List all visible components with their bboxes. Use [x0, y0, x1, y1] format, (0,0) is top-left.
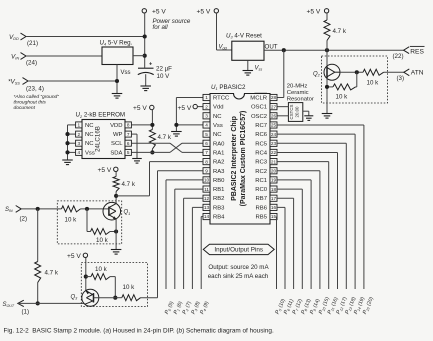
svg-text:Vss: Vss	[213, 123, 223, 129]
junction	[114, 229, 118, 233]
junction	[115, 79, 119, 83]
svg-text:6: 6	[205, 141, 208, 146]
junction	[282, 48, 286, 52]
caption	[4, 328, 274, 335]
wire pin25 to P15	[277, 125, 364, 289]
label 10 k	[336, 94, 349, 101]
svg-text:21: 21	[271, 159, 277, 164]
wire	[81, 208, 109, 210]
svg-text:U2 2-kB EEPROM: U2 2-kB EEPROM	[76, 112, 126, 119]
U1 pin 24 RC6	[255, 131, 277, 138]
svg-text:RA0: RA0	[213, 141, 225, 147]
U1 pin 13 RB3	[203, 204, 225, 211]
svg-text:*Also called “ground”: *Also called “ground”	[14, 94, 60, 100]
wire RES line	[264, 49, 404, 51]
resistor 10k	[91, 274, 110, 280]
svg-text:RB1: RB1	[213, 187, 224, 193]
label 4.7 k	[158, 134, 172, 141]
U1 pin 18 RC0	[255, 186, 277, 193]
eeprom pin 1	[76, 122, 95, 129]
wire pin22 to P12	[277, 152, 338, 289]
svg-text:3: 3	[205, 114, 208, 119]
svg-text:RC5: RC5	[255, 141, 268, 147]
wire RB2 to P2	[184, 198, 203, 289]
wire RA2 route	[116, 162, 203, 196]
svg-text:4.7 k: 4.7 k	[158, 134, 172, 141]
svg-text:NC: NC	[85, 132, 94, 138]
svg-text:for all: for all	[153, 24, 169, 31]
voltage regulator U4	[100, 40, 134, 65]
wire	[326, 50, 328, 66]
wire	[115, 192, 117, 196]
junction	[114, 194, 118, 198]
svg-text:Input/Output Pins: Input/Output Pins	[214, 246, 263, 253]
wire	[151, 149, 153, 152]
svg-text:NC: NC	[85, 141, 94, 147]
svg-text:13: 13	[204, 205, 210, 210]
U1 pin 27 OSC1	[251, 104, 277, 111]
capacitor C1 22uF	[138, 62, 154, 86]
svg-text:2: 2	[205, 104, 208, 109]
U1 pin 17 RB7	[256, 195, 277, 202]
wire pin21 to P11	[277, 162, 329, 289]
wire eeprom NC tie	[68, 125, 76, 160]
wire pin23 to P13	[277, 143, 346, 289]
svg-text:+5 V: +5 V	[133, 105, 147, 112]
label power source	[153, 18, 191, 31]
svg-text:each sink 25 mA each: each sink 25 mA each	[208, 273, 269, 280]
label 10 k	[123, 284, 136, 291]
svg-text:16: 16	[271, 205, 277, 210]
wire RB1 to P1	[175, 189, 203, 289]
wire	[115, 172, 117, 177]
node Vss	[8, 78, 44, 93]
junction	[325, 48, 329, 52]
svg-text:17: 17	[271, 196, 277, 201]
reset supervisor U3	[226, 33, 264, 61]
U1 pin 8 RA2	[203, 158, 224, 165]
resistor 4.7k	[113, 177, 119, 192]
svg-text:RA1: RA1	[213, 150, 224, 156]
junction	[84, 275, 88, 279]
svg-text:WP: WP	[113, 132, 123, 138]
svg-text:19: 19	[271, 178, 277, 183]
svg-text:+5 V: +5 V	[67, 253, 81, 260]
label Q2	[313, 71, 321, 77]
port RES	[393, 46, 425, 59]
wire	[26, 36, 145, 38]
wire pin19 to P9	[277, 180, 311, 289]
junction	[85, 207, 89, 211]
wire	[37, 209, 39, 262]
svg-text:6: 6	[127, 141, 130, 146]
wire SDA	[131, 143, 203, 152]
wire	[28, 80, 117, 82]
label Vdd	[219, 45, 228, 51]
wire	[18, 302, 84, 304]
svg-text:RC1: RC1	[255, 178, 267, 184]
power +5V terminal	[142, 9, 166, 16]
svg-text:RC7: RC7	[255, 123, 267, 129]
svg-text:3: 3	[77, 141, 80, 146]
wire	[356, 72, 358, 87]
label Q3	[71, 295, 79, 301]
ground	[62, 160, 73, 165]
svg-text:10 k: 10 k	[95, 266, 108, 273]
label Vss	[255, 65, 263, 71]
resistor 4.7k	[149, 130, 155, 150]
footnote	[14, 94, 60, 111]
interpreter chip U1 body	[210, 94, 270, 225]
dashed box	[57, 201, 121, 244]
svg-text:Vss: Vss	[121, 70, 131, 76]
wire pin17 to P7	[277, 198, 294, 289]
U1 pin 14 RB4	[203, 213, 225, 220]
svg-text:27: 27	[271, 104, 277, 109]
svg-text:+5 V: +5 V	[178, 105, 192, 112]
eeprom pin 8	[110, 122, 131, 129]
wire pin20 to P10	[277, 171, 320, 289]
transistor Q3	[82, 289, 99, 306]
svg-text:10 k: 10 k	[367, 79, 380, 86]
U1 pin 28 MCLR	[250, 93, 277, 101]
label Q1	[124, 210, 131, 216]
label P15	[362, 296, 375, 315]
wire RB0 to P0	[166, 180, 203, 289]
eeprom U2 label	[76, 112, 126, 119]
wire	[87, 231, 91, 233]
wire	[86, 209, 88, 232]
svg-text:20.00: 20.00	[294, 106, 299, 118]
wire base	[94, 297, 116, 299]
svg-text:12: 12	[204, 196, 210, 201]
wire	[326, 13, 328, 20]
svg-text:RB6: RB6	[256, 205, 268, 211]
svg-text:(2): (2)	[20, 216, 28, 223]
transistor Q2	[324, 64, 340, 80]
wire	[303, 111, 309, 116]
label 10 k	[95, 266, 108, 273]
wire pin16 to P6	[277, 207, 285, 289]
ground	[322, 114, 333, 119]
port Sout	[3, 300, 30, 315]
svg-text:RA2: RA2	[213, 160, 224, 166]
resistor 4.7k	[324, 20, 330, 41]
U1 pin 26 OSC2	[251, 113, 277, 120]
junction	[325, 85, 329, 89]
wire	[247, 60, 249, 70]
svg-text:VDD: VDD	[110, 123, 122, 129]
node Vdd	[9, 33, 38, 47]
svg-text:10: 10	[204, 178, 210, 183]
svg-text:OSC2: OSC2	[251, 114, 267, 120]
ground	[132, 159, 142, 164]
svg-text:11: 11	[204, 187, 209, 192]
eeprom U2 body	[82, 120, 125, 159]
wire	[326, 41, 328, 67]
svg-text:10 k: 10 k	[96, 237, 109, 244]
svg-text:+5 V: +5 V	[197, 9, 211, 16]
resistor 10k	[363, 69, 384, 75]
label P12	[336, 296, 349, 315]
svg-text:+5 V: +5 V	[152, 9, 166, 16]
junction	[174, 123, 178, 127]
svg-text:8: 8	[127, 123, 130, 128]
svg-text:RTCC: RTCC	[213, 96, 230, 102]
label P14	[353, 296, 366, 315]
svg-text:RC2: RC2	[255, 169, 267, 175]
svg-text:RC3: RC3	[255, 160, 268, 166]
svg-text:OUT: OUT	[265, 43, 278, 50]
svg-text:RB5: RB5	[256, 215, 268, 221]
eeprom pin 3	[76, 140, 95, 147]
power +5V terminal	[98, 167, 119, 174]
wire RB3 to P3	[192, 207, 203, 289]
U1 pin 19 RC1	[255, 177, 277, 184]
svg-text:Vdd: Vdd	[213, 105, 223, 111]
svg-text:10 k: 10 k	[336, 94, 349, 101]
U1 pin 9 RA3	[203, 168, 225, 175]
wire	[133, 55, 145, 57]
U1 pin 23 RC5	[255, 140, 277, 147]
U1 pin 11 RB1	[203, 186, 224, 193]
svg-text:ATN: ATN	[411, 69, 424, 76]
svg-text:RC0: RC0	[255, 187, 268, 193]
svg-text:1: 1	[77, 123, 80, 128]
label P11	[327, 296, 340, 315]
label 4.7 k	[333, 28, 347, 35]
wire	[151, 110, 153, 130]
svg-text:+5 V: +5 V	[307, 9, 321, 16]
svg-text:4: 4	[77, 150, 80, 155]
junction	[143, 54, 147, 58]
svg-text:2: 2	[77, 132, 80, 137]
svg-text:(3): (3)	[397, 75, 405, 82]
wire	[384, 71, 404, 73]
resistor 4.7k	[35, 262, 41, 283]
svg-text:throughout this: throughout this	[14, 100, 47, 106]
U1 pin 12 RB2	[203, 195, 224, 202]
svg-text:4: 4	[205, 123, 208, 128]
wire	[277, 115, 288, 117]
label resonator	[287, 84, 314, 103]
svg-text:15: 15	[271, 214, 277, 219]
wire RTCC ground	[176, 98, 203, 132]
svg-text:(22): (22)	[393, 53, 404, 60]
svg-text:(ParaMax Custom PIC16C57): (ParaMax Custom PIC16C57)	[240, 111, 247, 207]
ground	[243, 71, 254, 76]
label P9	[309, 298, 321, 316]
svg-text:Ceramic: Ceramic	[287, 90, 309, 96]
callout Input/Output Pins	[203, 244, 274, 254]
svg-text:(23, 4): (23, 4)	[26, 86, 44, 93]
svg-text:5: 5	[205, 132, 208, 137]
svg-text:7: 7	[205, 150, 208, 155]
junction	[150, 150, 154, 154]
label P2	[182, 300, 193, 315]
svg-text:NC: NC	[213, 114, 222, 120]
svg-text:RC6: RC6	[255, 132, 268, 138]
svg-text:4.7 k: 4.7 k	[45, 269, 59, 276]
eeprom pin 5	[110, 149, 131, 156]
junction	[150, 123, 154, 127]
svg-text:MCLR: MCLR	[250, 96, 267, 102]
svg-text:4.7 k: 4.7 k	[333, 28, 347, 35]
wire pin18 to P8	[277, 189, 302, 289]
svg-text:22 µF: 22 µF	[156, 65, 172, 72]
resistor 10k	[122, 295, 141, 301]
wire	[86, 277, 116, 298]
label 10 k	[96, 237, 109, 244]
svg-text:OSC1: OSC1	[251, 105, 267, 111]
svg-text:24LC16B: 24LC16B	[95, 126, 102, 152]
label P10	[318, 296, 331, 315]
U1 pin 21 RC3	[255, 158, 277, 165]
wire RB4 to P4	[201, 217, 203, 289]
svg-text:25: 25	[271, 123, 277, 128]
wire	[144, 13, 146, 68]
svg-text:26: 26	[271, 114, 277, 119]
junction	[65, 132, 69, 136]
power +5V terminal	[307, 9, 329, 16]
transistor Q1	[103, 202, 121, 220]
svg-text:document: document	[14, 105, 36, 111]
U1 pin 3 NC	[203, 113, 222, 120]
dashed box	[322, 56, 388, 103]
wire WP ground	[131, 134, 137, 158]
svg-text:RB7: RB7	[256, 196, 267, 202]
svg-text:5: 5	[127, 150, 130, 155]
wire SCL	[131, 143, 203, 152]
svg-text:1: 1	[205, 95, 208, 100]
label P3	[191, 300, 202, 315]
wire	[37, 283, 39, 304]
eeprom pin 6	[111, 140, 131, 147]
svg-text:RB0: RB0	[213, 178, 225, 184]
U1 pin 25 RC7	[255, 122, 277, 129]
svg-text:(21): (21)	[27, 40, 38, 47]
ceramic resonator X1	[288, 103, 302, 122]
svg-text:Vss: Vss	[85, 150, 95, 156]
ground	[140, 86, 151, 91]
label Vss	[121, 70, 131, 76]
junction	[65, 150, 69, 154]
wire	[217, 13, 232, 50]
resistor 10k	[91, 229, 111, 235]
svg-text:Output: source 20 mA: Output: source 20 mA	[208, 264, 269, 271]
svg-text:Fig. 12-2 BASIC Stamp 2 modul: Fig. 12-2 BASIC Stamp 2 module. (a) Hous…	[4, 328, 274, 335]
wire	[21, 208, 61, 210]
U1 pin 10 RB0	[203, 177, 225, 184]
svg-text:10 k: 10 k	[123, 284, 136, 291]
label 22uF 10V	[156, 65, 172, 80]
svg-text:RES: RES	[410, 49, 424, 56]
junction	[36, 207, 40, 211]
wire	[327, 86, 333, 88]
U1 pin 4 Vss	[203, 122, 223, 129]
power +5V terminal	[133, 105, 154, 112]
wire pin24 to P14	[277, 134, 355, 289]
junction	[143, 34, 147, 38]
svg-text:28: 28	[271, 95, 277, 100]
svg-text:14: 14	[204, 214, 210, 219]
junction	[113, 296, 117, 300]
resistor 10k	[333, 84, 356, 90]
U1 pin 2 Vdd	[203, 104, 223, 111]
svg-text:RB2: RB2	[213, 196, 224, 202]
wire MCLR branch	[277, 50, 284, 97]
label P13	[344, 296, 357, 315]
wire	[115, 219, 117, 250]
U1 pin 16 RB6	[256, 204, 277, 211]
label output spec	[208, 264, 270, 280]
svg-text:20: 20	[271, 168, 277, 173]
resistor 10k	[62, 206, 81, 212]
port Sin	[5, 206, 27, 223]
U1 pin 22 RC4	[255, 149, 277, 156]
wire pin15 to P5	[276, 217, 279, 289]
power +5V terminal	[67, 253, 88, 260]
U1 pin 5 NC	[203, 131, 222, 138]
wire	[115, 297, 157, 299]
eeprom pin 7	[113, 131, 131, 138]
power +5V terminal	[178, 104, 204, 112]
label P0	[164, 300, 175, 315]
svg-text:NC: NC	[213, 132, 222, 138]
svg-text:NC: NC	[85, 123, 94, 129]
label P6	[283, 298, 295, 315]
eeprom pin 4	[76, 149, 95, 156]
svg-text:10 V: 10 V	[157, 73, 171, 80]
wire	[115, 196, 117, 204]
svg-text:23: 23	[271, 141, 277, 146]
dashed box	[81, 263, 147, 307]
wire	[340, 71, 363, 73]
svg-text:+5 V: +5 V	[98, 167, 112, 174]
label P8	[300, 298, 312, 316]
svg-text:SDA: SDA	[110, 150, 122, 156]
label 10 k	[367, 79, 380, 86]
label P1	[173, 300, 184, 315]
wire	[327, 79, 357, 114]
svg-text:PBASIC2 Interpreter Chip: PBASIC2 Interpreter Chip	[231, 116, 238, 201]
label 4.7 k	[45, 269, 59, 276]
svg-text:8: 8	[205, 159, 208, 164]
U1 pin 15 RB5	[256, 213, 277, 220]
svg-text:Resonator: Resonator	[287, 97, 314, 103]
svg-text:18: 18	[271, 187, 277, 192]
svg-text:RC4: RC4	[255, 150, 268, 156]
label P5	[275, 298, 287, 316]
wire	[85, 258, 87, 291]
svg-text:(24): (24)	[26, 60, 37, 67]
ground	[111, 250, 122, 255]
interpreter chip U1 label	[211, 84, 246, 91]
label P7	[292, 298, 304, 316]
ground	[112, 94, 123, 99]
junction	[355, 70, 359, 74]
junction	[36, 301, 40, 305]
port ATN	[397, 69, 424, 82]
svg-text:SCL: SCL	[111, 141, 123, 147]
ground	[304, 116, 313, 121]
U1 pin 7 RA1	[203, 149, 224, 156]
power +5V terminal	[197, 9, 219, 16]
label OUT	[265, 43, 278, 50]
svg-text:4.7 k: 4.7 k	[122, 181, 136, 188]
label 10 k	[65, 217, 78, 224]
svg-text:7: 7	[127, 132, 130, 137]
